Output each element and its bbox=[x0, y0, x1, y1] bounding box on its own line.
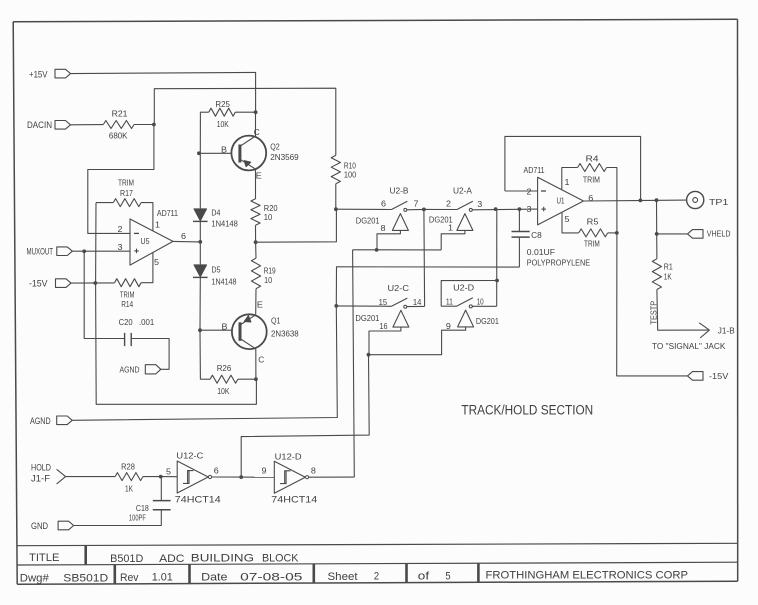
svg-text:3: 3 bbox=[527, 205, 533, 214]
svg-text:1K: 1K bbox=[664, 272, 673, 281]
svg-text:2: 2 bbox=[446, 199, 452, 208]
svg-text:C18: C18 bbox=[136, 504, 149, 513]
svg-text:AGND: AGND bbox=[30, 416, 51, 427]
svg-text:DG201: DG201 bbox=[476, 317, 499, 326]
svg-text:5: 5 bbox=[445, 570, 450, 582]
svg-text:TRIM: TRIM bbox=[118, 178, 134, 187]
svg-text:AD711: AD711 bbox=[524, 166, 546, 175]
svg-text:9: 9 bbox=[262, 466, 268, 475]
svg-text:TESTP: TESTP bbox=[649, 301, 658, 325]
svg-text:Q2: Q2 bbox=[270, 141, 280, 151]
svg-text:5: 5 bbox=[154, 258, 160, 267]
svg-text:3: 3 bbox=[118, 243, 124, 252]
svg-text:U2-A: U2-A bbox=[453, 186, 472, 196]
svg-text:E: E bbox=[256, 172, 262, 181]
svg-text:R1: R1 bbox=[664, 262, 673, 271]
svg-text:C: C bbox=[258, 355, 264, 364]
svg-text:8: 8 bbox=[311, 466, 317, 475]
svg-text:FROTHINGHAM ELECTRONICS CORP: FROTHINGHAM ELECTRONICS CORP bbox=[486, 570, 689, 582]
svg-text:100: 100 bbox=[344, 171, 357, 180]
svg-text:R19: R19 bbox=[264, 266, 276, 275]
svg-text:POLYPROPYLENE: POLYPROPYLENE bbox=[527, 259, 590, 268]
svg-text:DG201: DG201 bbox=[356, 216, 380, 225]
svg-text:Dwg#: Dwg# bbox=[20, 573, 50, 585]
svg-text:74HCT14: 74HCT14 bbox=[271, 495, 317, 506]
svg-text:R20: R20 bbox=[264, 204, 278, 213]
svg-text:7: 7 bbox=[414, 199, 420, 208]
svg-text:R10: R10 bbox=[344, 162, 356, 171]
svg-text:Rev: Rev bbox=[120, 572, 139, 584]
svg-text:6: 6 bbox=[181, 232, 187, 241]
svg-text:B501D: B501D bbox=[110, 553, 143, 565]
svg-text:100PF: 100PF bbox=[129, 514, 146, 523]
svg-text:DG201: DG201 bbox=[355, 314, 380, 323]
svg-text:2: 2 bbox=[118, 225, 124, 234]
svg-text:HOLD: HOLD bbox=[31, 463, 51, 474]
svg-text:9: 9 bbox=[446, 322, 452, 331]
svg-text:E: E bbox=[257, 300, 263, 309]
svg-text:0.01UF: 0.01UF bbox=[527, 248, 555, 257]
svg-text:-15V: -15V bbox=[709, 371, 729, 381]
svg-text:1: 1 bbox=[155, 221, 161, 230]
svg-text:6: 6 bbox=[214, 466, 220, 475]
svg-text:10K: 10K bbox=[217, 120, 230, 129]
svg-text:C8: C8 bbox=[531, 231, 542, 240]
svg-text:VHELD: VHELD bbox=[707, 228, 731, 238]
svg-text:11: 11 bbox=[446, 297, 453, 306]
svg-text:Sheet: Sheet bbox=[328, 571, 358, 583]
svg-text:AD711: AD711 bbox=[157, 209, 179, 218]
svg-text:B: B bbox=[221, 146, 227, 155]
svg-text:TRACK/HOLD SECTION: TRACK/HOLD SECTION bbox=[461, 403, 593, 418]
svg-text:D5: D5 bbox=[212, 266, 221, 275]
svg-text:1K: 1K bbox=[125, 484, 134, 493]
svg-text:8: 8 bbox=[381, 224, 387, 233]
svg-text:15: 15 bbox=[379, 298, 388, 307]
svg-text:R21: R21 bbox=[112, 109, 128, 118]
svg-text:SB501D: SB501D bbox=[63, 572, 108, 584]
svg-text:TO "SIGNAL" JACK: TO "SIGNAL" JACK bbox=[652, 342, 726, 351]
svg-text:R28: R28 bbox=[121, 463, 135, 472]
svg-text:1N4148: 1N4148 bbox=[212, 278, 237, 287]
svg-text:R25: R25 bbox=[215, 100, 230, 109]
svg-text:U5: U5 bbox=[141, 236, 150, 246]
svg-text:10K: 10K bbox=[217, 387, 230, 396]
svg-text:6: 6 bbox=[381, 199, 387, 208]
svg-text:TRIM: TRIM bbox=[584, 239, 600, 248]
svg-text:2N3569: 2N3569 bbox=[270, 152, 299, 162]
svg-text:Q1: Q1 bbox=[271, 315, 281, 325]
svg-text:Date: Date bbox=[201, 572, 227, 584]
svg-text:5: 5 bbox=[565, 215, 571, 224]
svg-text:2: 2 bbox=[374, 571, 379, 583]
svg-text:MUXOUT: MUXOUT bbox=[27, 247, 54, 258]
svg-text:+15V: +15V bbox=[29, 69, 48, 80]
svg-text:U2-D: U2-D bbox=[453, 283, 474, 293]
svg-text:07-08-05: 07-08-05 bbox=[240, 571, 302, 583]
svg-text:R17: R17 bbox=[120, 189, 133, 198]
svg-text:BLOCK: BLOCK bbox=[262, 552, 299, 564]
svg-text:2: 2 bbox=[527, 187, 533, 196]
svg-text:J1-B: J1-B bbox=[718, 326, 735, 336]
svg-text:D4: D4 bbox=[211, 208, 220, 217]
svg-text:U2-B: U2-B bbox=[390, 186, 409, 196]
svg-text:U1: U1 bbox=[557, 196, 565, 206]
svg-text:2N3638: 2N3638 bbox=[271, 328, 299, 338]
svg-text:16: 16 bbox=[380, 322, 388, 331]
svg-text:10: 10 bbox=[264, 276, 272, 285]
svg-text:3: 3 bbox=[477, 200, 483, 209]
svg-text:1: 1 bbox=[565, 178, 571, 187]
svg-text:10: 10 bbox=[477, 297, 484, 306]
svg-text:1N4148: 1N4148 bbox=[211, 220, 238, 229]
svg-text:TITLE: TITLE bbox=[29, 552, 59, 564]
svg-text:ADC: ADC bbox=[159, 553, 184, 565]
svg-text:-15V: -15V bbox=[29, 279, 48, 290]
svg-text:R14: R14 bbox=[121, 300, 133, 309]
svg-text:U12-D: U12-D bbox=[275, 452, 302, 462]
svg-text:TP1: TP1 bbox=[709, 197, 729, 207]
svg-text:DACIN: DACIN bbox=[27, 120, 52, 131]
svg-text:TRIM: TRIM bbox=[583, 175, 600, 184]
svg-text:1: 1 bbox=[448, 223, 454, 232]
svg-text:R5: R5 bbox=[587, 217, 599, 226]
svg-text:AGND: AGND bbox=[120, 366, 140, 375]
svg-text:R26: R26 bbox=[217, 364, 232, 373]
svg-text:R4: R4 bbox=[586, 154, 600, 163]
svg-text:680K: 680K bbox=[109, 132, 128, 141]
svg-text:U2-C: U2-C bbox=[388, 283, 410, 293]
svg-text:.001: .001 bbox=[139, 318, 155, 327]
svg-text:B: B bbox=[222, 323, 228, 332]
svg-text:J1-F: J1-F bbox=[31, 474, 50, 485]
svg-text:10: 10 bbox=[264, 213, 273, 222]
svg-text:1.01: 1.01 bbox=[152, 572, 173, 584]
svg-text:TRIM: TRIM bbox=[120, 290, 135, 299]
svg-text:14: 14 bbox=[413, 298, 422, 307]
svg-text:BUILDING: BUILDING bbox=[191, 553, 254, 565]
svg-text:U12-C: U12-C bbox=[176, 451, 203, 461]
svg-text:5: 5 bbox=[166, 467, 172, 476]
svg-text:GND: GND bbox=[31, 521, 48, 532]
svg-text:C20: C20 bbox=[119, 318, 134, 327]
svg-text:of: of bbox=[418, 571, 430, 583]
svg-text:C: C bbox=[254, 128, 260, 137]
svg-text:6: 6 bbox=[588, 194, 594, 203]
svg-text:74HCT14: 74HCT14 bbox=[175, 495, 221, 506]
